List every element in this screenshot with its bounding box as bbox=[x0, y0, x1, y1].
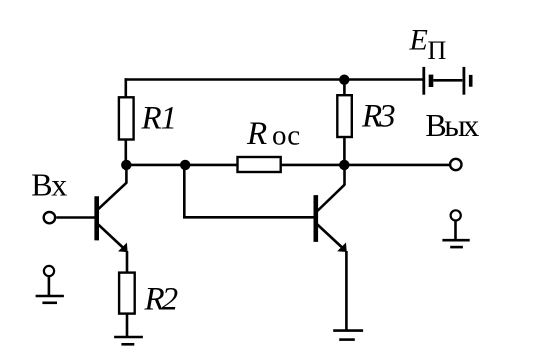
ground below Q2 bbox=[333, 331, 363, 340]
svg-text:ос: ос bbox=[272, 120, 300, 152]
terminal input bbox=[44, 212, 55, 223]
wire Q1 emitter to R2 bbox=[126, 251, 129, 273]
wire R1 bottom to node A bbox=[125, 140, 128, 166]
svg-text:R1: R1 bbox=[141, 101, 176, 137]
node C junction bbox=[339, 160, 349, 170]
wire input to Q1 base bbox=[56, 216, 95, 219]
wire R2 to ground bbox=[126, 314, 129, 337]
wire middle rail left segment bbox=[126, 164, 238, 167]
terminal ground right bbox=[451, 210, 461, 220]
wire R3 top to node D bbox=[343, 80, 346, 96]
terminal ground left bbox=[44, 266, 54, 276]
resistor R2 bbox=[119, 273, 135, 314]
wire node B down bbox=[183, 167, 186, 218]
wire left terminal to ground bbox=[48, 277, 51, 296]
wire feedback to Q2 base bbox=[183, 216, 315, 219]
svg-text:R: R bbox=[246, 116, 267, 152]
node D junction bbox=[339, 75, 349, 85]
svg-text:R2: R2 bbox=[144, 282, 178, 318]
battery EP bbox=[424, 67, 473, 95]
svg-text:Вх: Вх bbox=[31, 167, 67, 203]
svg-text:Вых: Вых bbox=[425, 107, 479, 143]
svg-text:R3: R3 bbox=[361, 99, 395, 135]
wire Q1 collector to node A bbox=[125, 167, 128, 184]
resistor R1 bbox=[119, 97, 134, 139]
wire R3 bottom to node C bbox=[343, 137, 346, 165]
wire Q2 emitter to ground bbox=[345, 251, 348, 331]
svg-text:П: П bbox=[428, 36, 447, 65]
resistor Roc bbox=[238, 157, 281, 172]
wire top-left corner down to R1 bbox=[125, 78, 128, 97]
ground right bbox=[442, 240, 469, 247]
ground left bbox=[36, 296, 64, 303]
wire Q2 collector to node C bbox=[343, 167, 346, 185]
transistor Q2 bbox=[316, 185, 347, 252]
ground below R2 bbox=[114, 337, 143, 344]
wire top rail bbox=[125, 78, 423, 81]
terminal output bbox=[450, 159, 461, 170]
node A junction bbox=[121, 160, 131, 170]
svg-text:E: E bbox=[409, 24, 428, 57]
wire middle rail right segment bbox=[280, 164, 449, 167]
node B junction bbox=[180, 160, 190, 170]
wire right terminal to ground bbox=[454, 221, 457, 240]
transistor Q1 bbox=[97, 183, 128, 252]
resistor R3 bbox=[337, 95, 352, 137]
